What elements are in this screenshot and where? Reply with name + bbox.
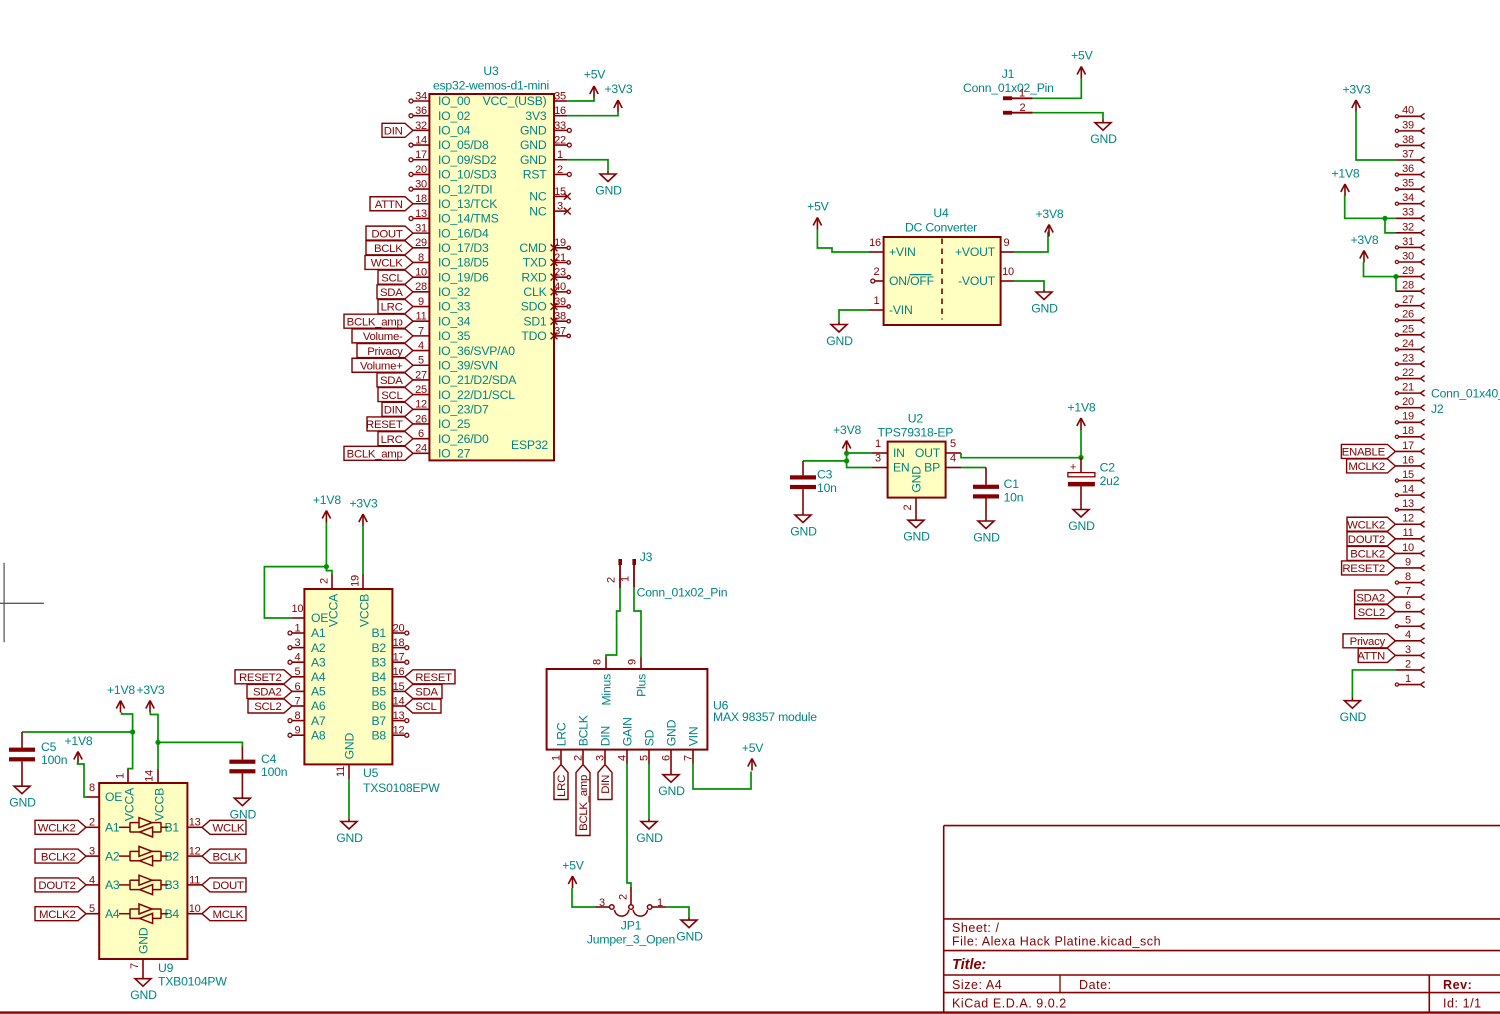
- svg-text:14: 14: [1402, 484, 1414, 496]
- wire +3V3 to U9 VCCB and C4: [150, 713, 242, 771]
- svg-text:IO_18/D5: IO_18/D5: [438, 256, 489, 270]
- svg-text:2: 2: [902, 504, 914, 510]
- ground symbol at U2 GND pin: [903, 517, 930, 544]
- ground symbol at J1 pin2: [1090, 120, 1117, 147]
- reference U9 / value TXB0104PW: [158, 961, 227, 988]
- svg-text:23: 23: [1402, 352, 1414, 364]
- svg-text:BP: BP: [924, 461, 940, 475]
- svg-text:LRC: LRC: [381, 434, 403, 446]
- hierarchical label MCLK2 at U9: [35, 907, 86, 921]
- svg-text:DIN: DIN: [384, 404, 403, 416]
- svg-text:GND: GND: [676, 929, 703, 943]
- svg-text:+3V3: +3V3: [349, 497, 377, 511]
- power +3V8 at U4 +VOUT: [1035, 207, 1063, 237]
- svg-text:1: 1: [1019, 88, 1025, 100]
- svg-text:A8: A8: [311, 728, 326, 742]
- svg-text:35: 35: [554, 90, 566, 102]
- svg-text:IO_10/SD3: IO_10/SD3: [438, 168, 497, 182]
- svg-text:BCLK_amp: BCLK_amp: [347, 316, 403, 328]
- svg-text:Conn_01x40_: Conn_01x40_: [1431, 387, 1500, 401]
- hierarchical label DIN (U3 pin row 3): [382, 123, 413, 137]
- svg-text:16: 16: [554, 105, 566, 117]
- ground symbol at U6 GND pin: [658, 764, 685, 798]
- svg-text:6: 6: [294, 681, 300, 693]
- wire +1V8 to U9 OE: [78, 762, 87, 797]
- svg-text:18: 18: [415, 193, 427, 205]
- power +5V at J1: [1071, 49, 1093, 79]
- svg-text:RESET: RESET: [366, 419, 403, 431]
- svg-text:IO_16/D4: IO_16/D4: [438, 226, 489, 240]
- svg-text:4: 4: [418, 340, 424, 352]
- power +1V8 above U5: [313, 493, 341, 523]
- svg-text:GND: GND: [903, 530, 930, 544]
- svg-text:17: 17: [1402, 440, 1414, 452]
- ground symbol at C2: [1068, 506, 1095, 533]
- svg-text:A2: A2: [311, 641, 326, 655]
- hierarchical label ENABLE at J2 pin 17: [1341, 444, 1395, 458]
- svg-text:C5: C5: [41, 740, 57, 754]
- reference U5 / value TXS0108EPW: [363, 766, 440, 795]
- svg-text:27: 27: [415, 369, 427, 381]
- svg-text:BCLK2: BCLK2: [41, 851, 76, 863]
- svg-text:NC: NC: [529, 190, 547, 204]
- svg-text:1: 1: [1405, 673, 1411, 685]
- svg-text:19: 19: [554, 237, 566, 249]
- svg-text:DIN: DIN: [600, 775, 612, 794]
- hierarchical label Volume+ (U3 pin row 19): [352, 358, 413, 372]
- svg-text:J3: J3: [640, 550, 653, 564]
- svg-text:BCLK: BCLK: [576, 715, 590, 746]
- svg-text:B7: B7: [371, 714, 386, 728]
- svg-text:Volume-: Volume-: [363, 331, 403, 343]
- ground symbol at C5: [9, 783, 36, 810]
- svg-text:37: 37: [554, 325, 566, 337]
- capacitor C1 10n: [973, 477, 1023, 518]
- svg-text:36: 36: [415, 105, 427, 117]
- svg-text:CMD: CMD: [519, 241, 547, 255]
- svg-text:BCLK: BCLK: [213, 851, 242, 863]
- svg-text:Date:: Date:: [1079, 978, 1112, 992]
- svg-text:12: 12: [1402, 513, 1414, 525]
- svg-text:+3V3: +3V3: [136, 683, 164, 697]
- svg-text:BCLK_amp: BCLK_amp: [578, 775, 590, 831]
- svg-text:+1V8: +1V8: [1067, 401, 1095, 415]
- junction at U2 EN branch: [844, 458, 849, 463]
- capacitor C2 2u2 polarized: [1068, 458, 1120, 507]
- svg-text:7: 7: [1405, 586, 1411, 598]
- hierarchical label WCLK (U3 pin row 12): [365, 255, 413, 269]
- svg-text:WCLK2: WCLK2: [38, 823, 76, 835]
- hierarchical label BCLK at U9: [202, 849, 246, 863]
- svg-text:SDA2: SDA2: [1356, 592, 1385, 604]
- svg-text:Volume+: Volume+: [360, 360, 403, 372]
- svg-text:Jumper_3_Open: Jumper_3_Open: [587, 933, 675, 947]
- svg-text:8: 8: [592, 659, 604, 665]
- svg-text:OE: OE: [105, 790, 122, 804]
- svg-text:B3: B3: [371, 655, 386, 669]
- svg-text:Conn_01x02_Pin: Conn_01x02_Pin: [963, 81, 1054, 95]
- power +1V8 at U2 OUT: [1067, 401, 1095, 431]
- svg-text:MAX 98357 module: MAX 98357 module: [713, 710, 817, 724]
- svg-text:IO_05/D8: IO_05/D8: [438, 138, 489, 152]
- reference U6 / value MAX 98357 module: [713, 699, 817, 725]
- svg-text:GND: GND: [343, 733, 357, 760]
- svg-text:Minus: Minus: [600, 674, 614, 706]
- hierarchical label SDA at U5: [405, 684, 442, 698]
- hierarchical label SCL2 at U5: [248, 699, 292, 713]
- svg-text:+1V8: +1V8: [313, 493, 341, 507]
- hierarchical label WCLK at U9: [202, 820, 246, 834]
- hierarchical label DOUT (U3 pin row 10): [366, 226, 413, 240]
- svg-text:3V3: 3V3: [525, 109, 547, 123]
- svg-text:2: 2: [89, 817, 95, 829]
- svg-text:RXD: RXD: [521, 270, 547, 284]
- svg-text:12: 12: [393, 725, 405, 737]
- svg-text:21: 21: [554, 252, 566, 264]
- svg-text:12: 12: [415, 399, 427, 411]
- svg-text:TDO: TDO: [521, 329, 546, 343]
- power +3V8 at J2 pin29: [1350, 233, 1378, 263]
- svg-text:4: 4: [294, 652, 300, 664]
- svg-text:2: 2: [874, 266, 880, 278]
- svg-text:15: 15: [1402, 469, 1414, 481]
- power +5V at JP1 pin3: [562, 859, 584, 889]
- svg-text:+3V8: +3V8: [833, 423, 861, 437]
- svg-text:6: 6: [418, 428, 424, 440]
- ground symbol at U4 -VIN: [826, 321, 853, 348]
- svg-text:39: 39: [554, 296, 566, 308]
- svg-text:IO_23/D7: IO_23/D7: [438, 402, 489, 416]
- svg-text:IO_12/TDI: IO_12/TDI: [438, 182, 492, 196]
- hierarchical label ATTN (U3 pin row 8): [370, 197, 413, 211]
- capacitor C3 10n: [790, 468, 837, 512]
- svg-text:35: 35: [1402, 178, 1414, 190]
- wire U3 pin35 to +5V: [567, 98, 594, 102]
- IC U6 MAX 98357 module: [547, 657, 708, 764]
- svg-text:1: 1: [115, 773, 127, 779]
- hierarchical label RESET2 at J2 pin 9: [1342, 561, 1396, 575]
- capacitor C5 100n: [9, 740, 67, 783]
- svg-text:RESET2: RESET2: [239, 672, 282, 684]
- hierarchical label LRC (U3 pin row 24): [378, 432, 413, 446]
- svg-text:18: 18: [393, 637, 405, 649]
- power +5V at U4 +VIN: [807, 200, 829, 230]
- svg-text:DIN: DIN: [384, 126, 403, 138]
- hierarchical label SDA2 at J2 pin 7: [1355, 590, 1396, 604]
- hierarchical label WCLK2 at U9: [35, 820, 86, 834]
- power +3V8 at U2 IN: [833, 423, 861, 453]
- svg-text:File: Alexa Hack Platine.kicad: File: Alexa Hack Platine.kicad_sch: [952, 935, 1161, 949]
- svg-text:31: 31: [1402, 236, 1414, 248]
- svg-text:26: 26: [415, 413, 427, 425]
- svg-text:1: 1: [875, 438, 881, 450]
- ground symbol at U5: [336, 818, 363, 845]
- junction +3V3/C4: [155, 740, 160, 745]
- svg-text:10n: 10n: [1004, 490, 1024, 504]
- svg-text:IO_17/D3: IO_17/D3: [438, 241, 489, 255]
- power +1V8 above U9: [107, 683, 135, 713]
- svg-text:B5: B5: [371, 685, 386, 699]
- svg-text:NC: NC: [529, 204, 547, 218]
- svg-text:ATTN: ATTN: [1357, 651, 1385, 663]
- svg-text:DOUT2: DOUT2: [38, 880, 75, 892]
- svg-text:1: 1: [657, 897, 663, 909]
- ground symbol at J2 pin2: [1340, 698, 1367, 725]
- svg-text:ENABLE: ENABLE: [1342, 447, 1386, 459]
- svg-text:MCLK2: MCLK2: [1348, 461, 1384, 473]
- wire J1 pin2 to GND: [1033, 113, 1103, 120]
- svg-text:+3V3: +3V3: [1342, 83, 1370, 97]
- ground symbol at C3: [790, 512, 817, 539]
- hierarchical label Privacy at J2 pin 4: [1343, 634, 1395, 648]
- jumper JP1 Jumper_3_Open: [587, 887, 675, 947]
- svg-text:29: 29: [415, 237, 427, 249]
- svg-text:RESET: RESET: [415, 672, 452, 684]
- svg-text:SDA: SDA: [380, 287, 403, 299]
- ground symbol at U3 pin1: [595, 171, 622, 198]
- svg-text:GND: GND: [520, 124, 547, 138]
- wire J2 pin2 to GND: [1352, 670, 1395, 698]
- svg-text:A1: A1: [311, 626, 326, 640]
- svg-text:MCLK2: MCLK2: [39, 909, 75, 921]
- wire +1V8 to J2 pins 33/32: [1345, 196, 1396, 233]
- svg-text:9: 9: [627, 659, 639, 665]
- svg-text:IO_35: IO_35: [438, 329, 471, 343]
- connector J1 Conn_01x02_Pin: [963, 67, 1054, 115]
- svg-text:WCLK2: WCLK2: [1347, 519, 1385, 531]
- connector J3 Conn_01x02_Pin: [606, 550, 728, 600]
- hierarchical label RESET (U3 pin row 23): [366, 417, 413, 431]
- svg-text:VCCA: VCCA: [327, 593, 341, 627]
- ground symbol at U6 SD: [636, 818, 663, 845]
- svg-text:22: 22: [1402, 367, 1414, 379]
- wire +3V8 to J2 pins 29/28: [1364, 262, 1397, 291]
- hierarchical label BCLK (U3 pin row 11): [366, 241, 413, 255]
- svg-text:5: 5: [639, 755, 651, 761]
- svg-text:SCL: SCL: [381, 272, 402, 284]
- wire junction to C5: [22, 732, 133, 748]
- wire +5V to U4 pin16: [817, 230, 869, 253]
- svg-text:SDO: SDO: [521, 300, 547, 314]
- svg-text:19: 19: [1402, 411, 1414, 423]
- svg-text:LRC: LRC: [554, 722, 568, 746]
- junction at U2 IN: [844, 451, 849, 456]
- svg-text:A3: A3: [105, 878, 120, 892]
- svg-text:B1: B1: [371, 626, 386, 640]
- svg-text:BCLK: BCLK: [374, 243, 403, 255]
- svg-text:IO_13/TCK: IO_13/TCK: [438, 197, 497, 211]
- hierarchical label BCLK_amp (U3 pin row 25): [344, 446, 413, 460]
- hierarchical label BCLK_amp (U3 pin row 16): [344, 314, 413, 328]
- svg-text:+5V: +5V: [742, 741, 764, 755]
- svg-text:28: 28: [415, 281, 427, 293]
- hierarchical label MCLK at U9: [202, 907, 246, 921]
- hierarchical label BCLK_amp at U6: [576, 765, 590, 836]
- svg-text:-VOUT: -VOUT: [958, 274, 996, 288]
- svg-text:3: 3: [557, 201, 563, 213]
- svg-text:IO_00: IO_00: [438, 94, 471, 108]
- svg-text:+5V: +5V: [807, 200, 829, 214]
- svg-text:13: 13: [415, 208, 427, 220]
- svg-text:26: 26: [1402, 309, 1414, 321]
- svg-text:GND: GND: [130, 988, 157, 1002]
- hierarchical label BCLK2 at U9: [35, 849, 86, 863]
- svg-text:3: 3: [595, 755, 607, 761]
- svg-text:VCCB: VCCB: [358, 594, 372, 627]
- svg-text:TXD: TXD: [523, 256, 547, 270]
- svg-text:2: 2: [1405, 658, 1411, 670]
- junction at J2 pin33: [1382, 216, 1387, 221]
- svg-text:VIN: VIN: [686, 727, 700, 747]
- svg-text:+3V3: +3V3: [604, 82, 632, 96]
- wire +3V3 to U5 VCCB: [362, 526, 364, 574]
- svg-text:ATTN: ATTN: [375, 199, 403, 211]
- svg-text:WCLK: WCLK: [371, 258, 403, 270]
- svg-text:4: 4: [89, 874, 95, 886]
- svg-text:GND: GND: [1068, 519, 1095, 533]
- svg-text:GND: GND: [230, 808, 257, 822]
- svg-text:36: 36: [1402, 163, 1414, 175]
- svg-text:7: 7: [683, 755, 695, 761]
- hierarchical label SCL (U3 pin row 13): [378, 270, 413, 284]
- svg-text:1: 1: [874, 295, 880, 307]
- IC U2 TPS79318-EP regulator: [872, 412, 961, 517]
- svg-text:Id: 1/1: Id: 1/1: [1443, 996, 1482, 1010]
- svg-text:IO_25: IO_25: [438, 417, 471, 431]
- svg-text:SDA: SDA: [380, 375, 403, 387]
- svg-text:TXB0104PW: TXB0104PW: [158, 975, 227, 989]
- power +5V at U3 VCC_(USB): [584, 68, 606, 99]
- hierarchical label ATTN at J2 pin 3: [1357, 648, 1395, 662]
- svg-text:+VIN: +VIN: [889, 245, 916, 259]
- svg-text:4: 4: [617, 755, 629, 761]
- svg-text:Conn_01x02_Pin: Conn_01x02_Pin: [637, 586, 728, 600]
- svg-text:OE: OE: [311, 611, 328, 625]
- svg-text:CLK: CLK: [523, 285, 546, 299]
- hierarchical label SCL (U3 pin row 21): [378, 388, 413, 402]
- svg-text:ESP32: ESP32: [511, 438, 548, 452]
- junction +1V8/VCCA/OE: [324, 564, 329, 569]
- svg-text:8: 8: [418, 252, 424, 264]
- wire U2 BP to C1: [961, 468, 986, 485]
- svg-text:ON/OFF: ON/OFF: [889, 274, 934, 288]
- svg-text:+1V8: +1V8: [107, 683, 135, 697]
- IC U9 TXB0104PW level shifter: [86, 769, 202, 976]
- svg-text:GND: GND: [826, 334, 853, 348]
- svg-text:2: 2: [618, 894, 630, 900]
- svg-text:21: 21: [1402, 382, 1414, 394]
- svg-text:DOUT: DOUT: [213, 880, 244, 892]
- svg-text:VCCB: VCCB: [153, 788, 167, 821]
- wire U5 GND pin down: [348, 779, 350, 818]
- power +3V3 at U3 3V3 pin: [604, 82, 632, 112]
- svg-text:esp32-wemos-d1-mini: esp32-wemos-d1-mini: [433, 79, 549, 93]
- hierarchical label DOUT at U9: [202, 878, 246, 892]
- svg-text:IO_22/D1/SCL: IO_22/D1/SCL: [438, 388, 515, 402]
- svg-text:25: 25: [415, 384, 427, 396]
- svg-text:4: 4: [1405, 629, 1411, 641]
- svg-text:Sheet: /: Sheet: /: [952, 921, 1000, 935]
- svg-text:Privacy: Privacy: [1350, 636, 1386, 648]
- svg-text:Privacy: Privacy: [367, 346, 403, 358]
- svg-text:18: 18: [1402, 425, 1414, 437]
- svg-text:27: 27: [1402, 294, 1414, 306]
- svg-text:1: 1: [557, 149, 563, 161]
- svg-text:+1V8: +1V8: [1331, 167, 1359, 181]
- svg-text:4: 4: [950, 453, 956, 465]
- svg-text:24: 24: [1402, 338, 1414, 350]
- connector J2 Conn_01x40: [1395, 105, 1500, 688]
- svg-text:17: 17: [415, 149, 427, 161]
- svg-text:A2: A2: [105, 849, 120, 863]
- hierarchical label DOUT2 at U9: [35, 878, 86, 892]
- svg-text:U5: U5: [363, 766, 379, 780]
- svg-text:1: 1: [620, 576, 632, 582]
- svg-text:WCLK: WCLK: [213, 823, 245, 835]
- svg-text:16: 16: [869, 237, 881, 249]
- svg-text:BCLK_amp: BCLK_amp: [347, 449, 403, 461]
- svg-text:GND: GND: [137, 927, 151, 954]
- wire to C3: [803, 461, 847, 475]
- svg-text:2: 2: [557, 164, 563, 176]
- svg-text:37: 37: [1402, 148, 1414, 160]
- svg-text:A4: A4: [311, 670, 326, 684]
- svg-text:2: 2: [573, 755, 585, 761]
- wire +1V8 to U5 VCCA and OE: [264, 523, 332, 619]
- svg-text:A6: A6: [311, 699, 326, 713]
- power +3V3 above U5: [349, 497, 377, 526]
- svg-text:LRC: LRC: [556, 775, 568, 797]
- ground symbol at U4 -VOUT: [1031, 289, 1058, 316]
- sheet frame bottom border: [0, 1011, 1500, 1013]
- svg-text:SD: SD: [642, 729, 656, 746]
- hierarchical label Volume- (U3 pin row 17): [352, 329, 413, 343]
- svg-text:C1: C1: [1004, 477, 1020, 491]
- IC U3 esp32-wemos-d1-mini (ESP32 module): [409, 64, 571, 461]
- svg-text:IO_26/D0: IO_26/D0: [438, 432, 489, 446]
- svg-text:13: 13: [393, 710, 405, 722]
- capacitor C4 100n: [229, 746, 287, 795]
- power +3V3 at J2 pin37: [1342, 83, 1370, 113]
- svg-text:A4: A4: [105, 907, 120, 921]
- wire U4 -VOUT to GND: [1014, 281, 1044, 289]
- svg-text:7: 7: [294, 695, 300, 707]
- hierarchical label DIN at U6: [598, 765, 612, 800]
- svg-text:19: 19: [350, 575, 362, 587]
- svg-text:GND: GND: [1090, 132, 1117, 146]
- svg-text:OUT: OUT: [915, 446, 941, 460]
- hierarchical label LRC (U3 pin row 15): [378, 300, 413, 314]
- svg-text:GND: GND: [910, 466, 924, 493]
- svg-text:SCL: SCL: [381, 390, 402, 402]
- svg-text:+1V8: +1V8: [64, 734, 92, 748]
- svg-text:SDA: SDA: [415, 687, 438, 699]
- svg-text:29: 29: [1402, 265, 1414, 277]
- svg-text:-VIN: -VIN: [889, 303, 913, 317]
- svg-text:8: 8: [294, 710, 300, 722]
- svg-text:5: 5: [1405, 615, 1411, 627]
- svg-text:SDA2: SDA2: [253, 687, 282, 699]
- svg-text:1: 1: [551, 755, 563, 761]
- power +5V at U6 VIN: [742, 741, 764, 771]
- hierarchical label Privacy (U3 pin row 18): [357, 344, 413, 358]
- hierarchical label SCL2 at J2 pin 6: [1355, 605, 1396, 619]
- svg-text:3: 3: [294, 637, 300, 649]
- svg-text:Rev:: Rev:: [1443, 978, 1472, 992]
- wire +5V to JP1 pin3: [572, 888, 595, 907]
- svg-text:IO_32: IO_32: [438, 285, 471, 299]
- wire U3 pin16 to +3V3: [567, 112, 618, 116]
